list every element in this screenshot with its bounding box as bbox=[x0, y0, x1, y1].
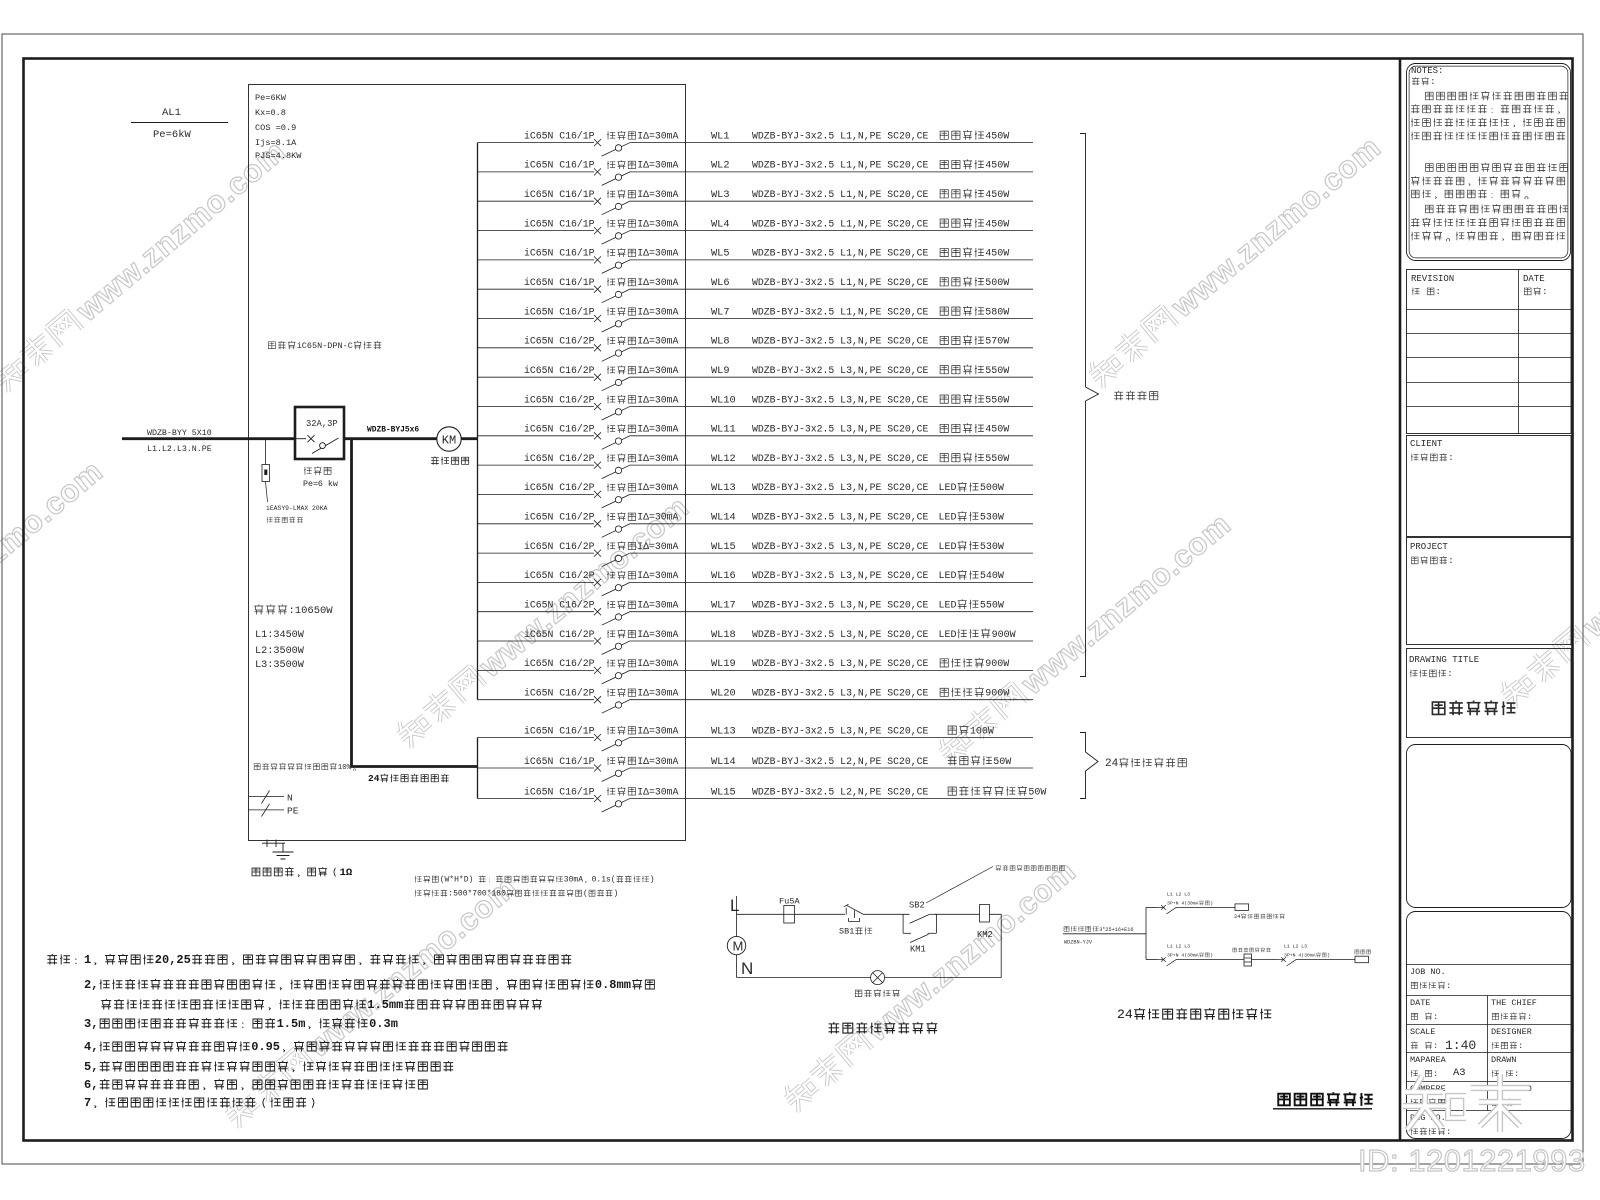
breaker row WL5 iC65N C16/1P bbox=[478, 247, 1034, 273]
svg-text:550W: 550W bbox=[980, 601, 1004, 612]
svg-text:50W: 50W bbox=[993, 757, 1011, 768]
cable label: mall cable 3*25+16+E16 bbox=[1064, 926, 1133, 945]
svg-text:WL15: WL15 bbox=[711, 786, 736, 798]
svg-text::: : bbox=[1430, 77, 1435, 87]
svg-text:iC65N C16/1P: iC65N C16/1P bbox=[524, 218, 595, 229]
svg-text:IΔ=30mA: IΔ=30mA bbox=[637, 130, 678, 141]
svg-text:450W: 450W bbox=[985, 249, 1009, 260]
breaker row WL17 iC65N C16/2P bbox=[478, 599, 1034, 625]
svg-text:iC65N C16/1P: iC65N C16/1P bbox=[524, 248, 595, 259]
svg-text:(W*H*D): (W*H*D) bbox=[440, 876, 474, 885]
svg-text:WDZB-BYJ-3x2.5 L3,N,PE SC20,CE: WDZB-BYJ-3x2.5 L3,N,PE SC20,CE bbox=[752, 688, 928, 699]
svg-text:WDZB-BYJ-3x2.5 L3,N,PE SC20,CE: WDZB-BYJ-3x2.5 L3,N,PE SC20,CE bbox=[752, 394, 928, 405]
svg-text:WDZB-BYJ-3x2.5 L3,N,PE SC20,CE: WDZB-BYJ-3x2.5 L3,N,PE SC20,CE bbox=[752, 725, 928, 736]
title block: PROJECT box bbox=[1407, 538, 1572, 645]
svg-text:IΔ=30mA: IΔ=30mA bbox=[637, 424, 678, 435]
svg-text:L: L bbox=[730, 896, 739, 915]
svg-text:Fu5A: Fu5A bbox=[779, 897, 800, 907]
svg-text:2,: 2, bbox=[84, 978, 98, 992]
distribution panel enclosure AL1 bbox=[249, 85, 686, 841]
svg-text:WL12: WL12 bbox=[711, 453, 736, 465]
title block: REVISION table bbox=[1407, 270, 1572, 434]
svg-text:SCALE: SCALE bbox=[1410, 1027, 1436, 1037]
svg-text:WDZB-BYJ-3x2.5 L3,N,PE SC20,CE: WDZB-BYJ-3x2.5 L3,N,PE SC20,CE bbox=[752, 336, 928, 347]
svg-text:WDZB-BYJ-3x2.5 L1,N,PE SC20,CE: WDZB-BYJ-3x2.5 L1,N,PE SC20,CE bbox=[752, 306, 928, 317]
svg-text:1:40: 1:40 bbox=[1445, 1038, 1476, 1053]
svg-text:COS =0.9: COS =0.9 bbox=[255, 123, 296, 133]
svg-text:450W: 450W bbox=[985, 131, 1009, 142]
breaker row WL8 iC65N C16/2P bbox=[478, 335, 1034, 361]
svg-text:IΔ=30mA: IΔ=30mA bbox=[637, 189, 678, 200]
breaker row WL12 iC65N C16/2P bbox=[478, 453, 1034, 479]
svg-text:WDZB-BYJ-3x2.5 L2,N,PE SC20,CE: WDZB-BYJ-3x2.5 L2,N,PE SC20,CE bbox=[752, 756, 928, 767]
svg-text:50W: 50W bbox=[1028, 787, 1046, 798]
svg-text:DATE: DATE bbox=[1410, 998, 1430, 1008]
svg-text:L1:3450W: L1:3450W bbox=[255, 630, 305, 641]
svg-text:IΔ=30mA: IΔ=30mA bbox=[637, 688, 678, 699]
breaker: 24h bottom branch second 3P+N bbox=[1252, 944, 1356, 967]
svg-text:10%: 10% bbox=[338, 764, 352, 772]
svg-text:ID: 1201221993: ID: 1201221993 bbox=[1358, 1143, 1586, 1178]
breaker row WL11 iC65N C16/2P bbox=[478, 423, 1034, 449]
svg-text:WDZB-BYJ-3x2.5 L1,N,PE SC20,CE: WDZB-BYJ-3x2.5 L1,N,PE SC20,CE bbox=[752, 160, 928, 171]
pushbutton SB2 start with KM1 parallel contact bbox=[903, 901, 936, 955]
svg-text:WDZBN-YJV: WDZBN-YJV bbox=[1064, 940, 1093, 946]
breaker row WL14 iC65N C16/1P bbox=[478, 755, 1034, 781]
svg-text:WL17: WL17 bbox=[711, 600, 736, 612]
svg-text:DRAWING TITLE: DRAWING TITLE bbox=[1409, 655, 1479, 665]
svg-text:WDZB-BYJ-3x2.5 L3,N,PE SC20,CE: WDZB-BYJ-3x2.5 L3,N,PE SC20,CE bbox=[752, 512, 928, 523]
svg-text:SB1: SB1 bbox=[839, 927, 854, 937]
svg-text:IΔ=30mA: IΔ=30mA bbox=[637, 600, 678, 611]
svg-text:N: N bbox=[287, 793, 293, 804]
svg-text:Pe=6 kw: Pe=6 kw bbox=[303, 479, 338, 489]
title block: CLIENT box bbox=[1407, 436, 1572, 537]
svg-text:WDZB-BYJ-3x2.5 L3,N,PE SC20,CE: WDZB-BYJ-3x2.5 L3,N,PE SC20,CE bbox=[752, 658, 928, 669]
wire: 24h uninterrupted bypass feed bbox=[352, 439, 479, 784]
svg-text:L3:3500W: L3:3500W bbox=[255, 660, 305, 671]
title block: NOTES box bbox=[1407, 64, 1571, 261]
svg-text:L2:3500W: L2:3500W bbox=[255, 646, 305, 657]
svg-text:550W: 550W bbox=[985, 454, 1009, 465]
svg-text:iC65N-DPN-C: iC65N-DPN-C bbox=[297, 341, 353, 351]
panel load parameters label bbox=[255, 93, 302, 161]
wire: one-key top conductor bbox=[736, 896, 738, 936]
svg-text:LED: LED bbox=[939, 630, 957, 641]
svg-text:LED: LED bbox=[939, 601, 957, 612]
svg-text:1Ω: 1Ω bbox=[340, 867, 353, 879]
svg-text:iC65N C16/1P: iC65N C16/1P bbox=[524, 756, 595, 767]
title block: lower info table bbox=[1407, 912, 1572, 1139]
svg-text:3,: 3, bbox=[84, 1017, 98, 1031]
svg-text:Kx=0.8: Kx=0.8 bbox=[255, 108, 286, 118]
svg-text:): ) bbox=[1210, 953, 1213, 959]
svg-text:WDZB-BYJ-3x2.5 L3,N,PE SC20,CE: WDZB-BYJ-3x2.5 L3,N,PE SC20,CE bbox=[752, 570, 928, 581]
svg-text::: : bbox=[1433, 1069, 1438, 1079]
contactor KM one-key power-off bbox=[431, 427, 469, 465]
cable label WDZB-BYJ5x6 bbox=[367, 426, 419, 435]
svg-text:WL15: WL15 bbox=[711, 541, 736, 553]
svg-text:540W: 540W bbox=[980, 571, 1004, 582]
svg-text:WDZB-BYJ-3x2.5 L1,N,PE SC20,CE: WDZB-BYJ-3x2.5 L1,N,PE SC20,CE bbox=[752, 248, 928, 259]
breaker row WL13 iC65N C16/2P bbox=[478, 482, 1034, 508]
svg-text:500W: 500W bbox=[985, 278, 1009, 289]
svg-text:KM1: KM1 bbox=[910, 945, 926, 955]
coil KM2 bbox=[977, 905, 993, 941]
breaker row WL16 iC65N C16/2P bbox=[478, 570, 1034, 596]
breaker row WL9 iC65N C16/2P bbox=[478, 365, 1034, 391]
svg-text:3P+N 4(30mA: 3P+N 4(30mA bbox=[1167, 953, 1199, 959]
leader: start signal to low-voltage box note bbox=[926, 865, 1064, 903]
svg-text:Pe=6kW: Pe=6kW bbox=[153, 129, 192, 141]
svg-text:20,25: 20,25 bbox=[155, 953, 191, 967]
svg-text:3P+N 4(30mA: 3P+N 4(30mA bbox=[1284, 953, 1316, 959]
svg-text:450W: 450W bbox=[985, 219, 1009, 230]
watermark row 3 mid bbox=[777, 853, 1082, 1117]
svg-text:550W: 550W bbox=[985, 366, 1009, 377]
svg-text:550W: 550W bbox=[985, 395, 1009, 406]
svg-text:WDZB-BYJ-3x2.5 L3,N,PE SC20,CE: WDZB-BYJ-3x2.5 L3,N,PE SC20,CE bbox=[752, 453, 928, 464]
svg-text:DRAWN: DRAWN bbox=[1491, 1055, 1517, 1065]
svg-text:WL6: WL6 bbox=[711, 277, 730, 289]
svg-text:IΔ=30mA: IΔ=30mA bbox=[637, 541, 678, 552]
svg-text:7: 7 bbox=[84, 1096, 91, 1110]
svg-text:LED: LED bbox=[939, 571, 957, 582]
svg-text:IΔ=30mA: IΔ=30mA bbox=[637, 277, 678, 288]
watermark row 2 right edge (partial) bbox=[1494, 449, 1600, 713]
bracket: normal power group bbox=[1080, 134, 1158, 677]
svg-text:900W: 900W bbox=[985, 689, 1009, 700]
svg-text:IΔ=30mA: IΔ=30mA bbox=[637, 453, 678, 464]
surge protector iEASY9-LMAX 20KA bbox=[262, 439, 328, 523]
load: 24h uninterrupted equipment bbox=[1234, 904, 1285, 920]
svg-text:500W: 500W bbox=[980, 483, 1004, 494]
svg-text:iC65N C16/2P: iC65N C16/2P bbox=[524, 336, 595, 347]
svg-text:iC65N C16/2P: iC65N C16/2P bbox=[524, 688, 595, 699]
title block: DRAWING TITLE box bbox=[1407, 649, 1572, 738]
svg-text::: : bbox=[1448, 453, 1453, 463]
svg-text:IΔ=30mA: IΔ=30mA bbox=[637, 756, 678, 767]
svg-text::: : bbox=[1446, 981, 1451, 991]
wire: main incoming feed WDZB-BYY 5X10 bbox=[122, 429, 295, 454]
svg-text::500*700*180: :500*700*180 bbox=[448, 890, 506, 899]
svg-text:0.1s(: 0.1s( bbox=[592, 876, 616, 885]
svg-text:WDZB-BYJ-3x2.5 L3,N,PE SC20,CE: WDZB-BYJ-3x2.5 L3,N,PE SC20,CE bbox=[752, 365, 928, 376]
breaker brand note label bbox=[268, 341, 381, 351]
busbar: normal power rows WL1-WL20 bbox=[477, 143, 479, 700]
svg-text:WL14: WL14 bbox=[711, 756, 736, 768]
svg-text:iC65N C16/2P: iC65N C16/2P bbox=[524, 541, 595, 552]
svg-text:WDZB-BYJ-3x2.5 L3,N,PE SC20,CE: WDZB-BYJ-3x2.5 L3,N,PE SC20,CE bbox=[752, 600, 928, 611]
svg-text::: : bbox=[1436, 287, 1441, 297]
svg-text:A3: A3 bbox=[1453, 1067, 1466, 1079]
svg-text:3P+N 4(30mA: 3P+N 4(30mA bbox=[1167, 901, 1199, 907]
svg-text:WL20: WL20 bbox=[711, 688, 736, 700]
svg-text:WL3: WL3 bbox=[711, 189, 730, 201]
svg-text:PJS=4.8KW: PJS=4.8KW bbox=[255, 151, 302, 161]
svg-text:24: 24 bbox=[1105, 758, 1119, 770]
svg-text:Pe=6KW: Pe=6KW bbox=[255, 93, 287, 103]
svg-text:WL19: WL19 bbox=[711, 658, 736, 670]
breaker row WL20 iC65N C16/2P bbox=[478, 687, 1034, 713]
breaker row WL2 iC65N C16/1P bbox=[478, 159, 1034, 185]
svg-text:5,: 5, bbox=[84, 1060, 98, 1074]
svg-text:IΔ=30mA: IΔ=30mA bbox=[637, 394, 678, 405]
svg-text::: : bbox=[1542, 287, 1547, 297]
svg-text:iC65N C16/1P: iC65N C16/1P bbox=[524, 130, 595, 141]
svg-text:KM2: KM2 bbox=[977, 930, 993, 940]
svg-text:450W: 450W bbox=[985, 190, 1009, 201]
svg-text:THE CHIEF: THE CHIEF bbox=[1491, 998, 1537, 1008]
svg-text:iC65N C16/2P: iC65N C16/2P bbox=[524, 482, 595, 493]
svg-text:L1.L2.L3.N.PE: L1.L2.L3.N.PE bbox=[147, 445, 212, 454]
enclosure size note bbox=[415, 875, 655, 898]
svg-text:): ) bbox=[650, 876, 655, 885]
breaker: 24h top branch 3P+N bbox=[1146, 892, 1235, 914]
svg-text:IΔ=30mA: IΔ=30mA bbox=[637, 658, 678, 669]
svg-text:6,: 6, bbox=[84, 1078, 98, 1092]
svg-text:SB2: SB2 bbox=[909, 901, 925, 911]
svg-text:WDZB-BYJ-3x2.5 L1,N,PE SC20,CE: WDZB-BYJ-3x2.5 L1,N,PE SC20,CE bbox=[752, 218, 928, 229]
svg-text:DATE: DATE bbox=[1523, 274, 1545, 284]
svg-text:iC65N C16/1P: iC65N C16/1P bbox=[524, 189, 595, 200]
svg-text:iC65N C16/1P: iC65N C16/1P bbox=[524, 306, 595, 317]
svg-text:0.95: 0.95 bbox=[251, 1040, 280, 1054]
svg-text:WL14: WL14 bbox=[711, 512, 736, 524]
svg-text:WL4: WL4 bbox=[711, 218, 730, 230]
svg-text:WL1: WL1 bbox=[711, 130, 730, 142]
svg-text:IΔ=30mA: IΔ=30mA bbox=[637, 570, 678, 581]
svg-text:PROJECT: PROJECT bbox=[1410, 542, 1448, 552]
svg-text:REVISION: REVISION bbox=[1411, 274, 1454, 284]
svg-text:WDZB-BYJ-3x2.5 L3,N,PE SC20,CE: WDZB-BYJ-3x2.5 L3,N,PE SC20,CE bbox=[752, 541, 928, 552]
svg-text:WL13: WL13 bbox=[711, 482, 736, 494]
wire: KM to busbar bbox=[461, 437, 478, 440]
svg-text::: : bbox=[1527, 1012, 1532, 1022]
svg-text:Ijs=8.1A: Ijs=8.1A bbox=[255, 138, 297, 148]
breaker row WL14 iC65N C16/2P bbox=[478, 511, 1034, 537]
busbar: 24h power rows bbox=[477, 738, 479, 799]
svg-text:32A,3P: 32A,3P bbox=[306, 419, 338, 429]
svg-text::: : bbox=[1447, 669, 1452, 679]
svg-text:IΔ=30mA: IΔ=30mA bbox=[637, 482, 678, 493]
breaker row WL15 iC65N C16/2P bbox=[478, 541, 1034, 567]
breaker row WL13 iC65N C16/1P bbox=[478, 725, 1034, 751]
svg-text:L1 L2 L3: L1 L2 L3 bbox=[1167, 892, 1190, 898]
phase imbalance note bbox=[254, 763, 356, 772]
watermark row 2 far-left (partial) bbox=[0, 453, 110, 717]
svg-text::: : bbox=[1514, 1069, 1519, 1079]
svg-text:IΔ=30mA: IΔ=30mA bbox=[637, 725, 678, 736]
svg-text:iC65N C16/2P: iC65N C16/2P bbox=[524, 512, 595, 523]
node N neutral label bbox=[741, 959, 753, 978]
svg-text:JOB NO.: JOB NO. bbox=[1410, 967, 1446, 977]
svg-text:(: ( bbox=[583, 890, 588, 899]
node PE earth bar bbox=[248, 804, 298, 817]
svg-text:PE: PE bbox=[287, 806, 299, 817]
svg-text:1.5mm: 1.5mm bbox=[367, 998, 403, 1012]
watermark row 2 mid-left bbox=[390, 489, 695, 753]
svg-text:24: 24 bbox=[1234, 914, 1240, 920]
svg-text:iEASY9-LMAX 20KA: iEASY9-LMAX 20KA bbox=[266, 505, 328, 512]
svg-text:24: 24 bbox=[368, 773, 380, 784]
breaker row WL3 iC65N C16/1P bbox=[478, 189, 1034, 215]
wire: 32A breaker to KM contactor bbox=[344, 437, 437, 440]
svg-text:WL2: WL2 bbox=[711, 160, 730, 172]
svg-text:450W: 450W bbox=[985, 425, 1009, 436]
svg-text:WL18: WL18 bbox=[711, 629, 736, 641]
watermark logo (large) bottom right bbox=[1403, 1074, 1529, 1132]
svg-text:IΔ=30mA: IΔ=30mA bbox=[637, 336, 678, 347]
svg-text:450W: 450W bbox=[985, 161, 1009, 172]
breaker row WL19 iC65N C16/2P bbox=[478, 658, 1034, 684]
fuse Fu5A bbox=[779, 897, 800, 924]
wire: one-key bottom conductor bbox=[736, 955, 738, 978]
svg-text:WDZB-BYJ-3x2.5 L1,N,PE SC20,CE: WDZB-BYJ-3x2.5 L1,N,PE SC20,CE bbox=[752, 277, 928, 288]
svg-text:WDZB-BYJ-3x2.5 L2,N,PE SC20,CE: WDZB-BYJ-3x2.5 L2,N,PE SC20,CE bbox=[752, 786, 928, 797]
svg-text:WL8: WL8 bbox=[711, 336, 730, 348]
svg-text::: : bbox=[1433, 1012, 1438, 1022]
svg-text::: : bbox=[1448, 556, 1453, 566]
wire: KM2 to right drop bbox=[990, 914, 1002, 977]
svg-text:L1 L2 L3: L1 L2 L3 bbox=[1284, 944, 1307, 950]
svg-text:iC65N C16/2P: iC65N C16/2P bbox=[524, 658, 595, 669]
svg-text::: : bbox=[1518, 1041, 1523, 1051]
watermark row 2 mid-right bbox=[932, 506, 1237, 770]
breaker row WL10 iC65N C16/2P bbox=[478, 394, 1034, 420]
breaker row WL15 iC65N C16/1P bbox=[478, 786, 1047, 812]
breaker QF main 32A,3P with leakage protection bbox=[295, 407, 344, 489]
breaker row WL6 iC65N C16/1P bbox=[478, 277, 1034, 303]
watermark row 3 left bbox=[218, 869, 523, 1133]
svg-text:WL16: WL16 bbox=[711, 570, 736, 582]
svg-text:DESIGNER: DESIGNER bbox=[1491, 1027, 1532, 1037]
wire: 24h feed to branch point bbox=[1063, 933, 1146, 935]
svg-text:WDZB-BYJ5x6: WDZB-BYJ5x6 bbox=[367, 426, 419, 435]
svg-text:IΔ=30mA: IΔ=30mA bbox=[637, 160, 678, 171]
svg-text:iC65N C16/2P: iC65N C16/2P bbox=[524, 629, 595, 640]
watermark row 1 left bbox=[0, 133, 293, 397]
svg-text:1: 1 bbox=[84, 953, 91, 967]
svg-text:): ) bbox=[614, 890, 619, 899]
svg-text:iC65N C16/1P: iC65N C16/1P bbox=[524, 786, 595, 797]
svg-text:IΔ=30mA: IΔ=30mA bbox=[637, 629, 678, 640]
svg-text:WDZB-BYJ-3x2.5 L3,N,PE SC20,CE: WDZB-BYJ-3x2.5 L3,N,PE SC20,CE bbox=[752, 482, 928, 493]
breaker row WL1 iC65N C16/1P bbox=[478, 130, 1034, 156]
stabilizer: three-phase voltage regulator bbox=[1233, 947, 1271, 966]
svg-text:CLIENT: CLIENT bbox=[1410, 439, 1443, 449]
svg-text:iC65N C16/1P: iC65N C16/1P bbox=[524, 725, 595, 736]
svg-text:900W: 900W bbox=[992, 630, 1016, 641]
svg-text:iC65N C16/2P: iC65N C16/2P bbox=[524, 365, 595, 376]
svg-text:IΔ=30mA: IΔ=30mA bbox=[637, 512, 678, 523]
pushbutton SB1 stop (NC) bbox=[839, 904, 872, 936]
svg-text:0.8mm: 0.8mm bbox=[595, 978, 631, 992]
svg-text:900W: 900W bbox=[985, 659, 1009, 670]
svg-text:WL13: WL13 bbox=[711, 725, 736, 737]
svg-text:WDZB-BYJ-3x2.5 L3,N,PE SC20,CE: WDZB-BYJ-3x2.5 L3,N,PE SC20,CE bbox=[752, 424, 928, 435]
svg-text:4,: 4, bbox=[84, 1040, 98, 1054]
svg-text:WL5: WL5 bbox=[711, 248, 730, 260]
wire: contacts to KM2 coil bbox=[935, 913, 980, 915]
lamp: power indicator bbox=[855, 971, 899, 998]
svg-text:NOTES:: NOTES: bbox=[1411, 66, 1443, 76]
svg-text:WL10: WL10 bbox=[711, 394, 736, 406]
svg-text:1.5m: 1.5m bbox=[277, 1017, 306, 1031]
node N neutral bar bbox=[248, 791, 292, 804]
svg-text:): ) bbox=[1210, 901, 1213, 907]
svg-text:WDZB-BYJ-3x2.5 L1,N,PE SC20,CE: WDZB-BYJ-3x2.5 L1,N,PE SC20,CE bbox=[752, 189, 928, 200]
title: one-key start system bbox=[829, 1022, 938, 1034]
breaker: 24h bottom branch first 3P+N bbox=[1146, 944, 1244, 967]
svg-text:LED: LED bbox=[939, 483, 957, 494]
svg-text:iC65N C16/2P: iC65N C16/2P bbox=[524, 600, 595, 611]
svg-text:iC65N C16/1P: iC65N C16/1P bbox=[524, 277, 595, 288]
svg-text::: : bbox=[1446, 1127, 1451, 1137]
svg-text:KM: KM bbox=[442, 434, 456, 448]
load: distribution box bbox=[1355, 950, 1371, 963]
svg-text:IΔ=30mA: IΔ=30mA bbox=[637, 365, 678, 376]
svg-text:580W: 580W bbox=[985, 307, 1009, 318]
svg-text:24: 24 bbox=[1117, 1007, 1133, 1022]
svg-text:IΔ=30mA: IΔ=30mA bbox=[637, 306, 678, 317]
breaker row WL7 iC65N C16/1P bbox=[478, 306, 1034, 332]
node AL1 panel designation bbox=[131, 107, 228, 141]
svg-text:570W: 570W bbox=[985, 337, 1009, 348]
svg-text:): ) bbox=[1327, 953, 1330, 959]
svg-text:WDZB-BYY 5X10: WDZB-BYY 5X10 bbox=[147, 429, 212, 438]
svg-text:530W: 530W bbox=[980, 542, 1004, 553]
total power labels bbox=[254, 605, 333, 671]
svg-text:iC65N C16/2P: iC65N C16/2P bbox=[524, 570, 595, 581]
svg-text:iC65N C16/2P: iC65N C16/2P bbox=[524, 424, 595, 435]
breaker row WL4 iC65N C16/1P bbox=[478, 218, 1034, 244]
svg-text:LED: LED bbox=[939, 513, 957, 524]
title: 24h uninterrupted supply diagram bbox=[1117, 1007, 1271, 1022]
title block divider line bbox=[1399, 59, 1402, 1141]
svg-text:WL9: WL9 bbox=[711, 365, 730, 377]
sheet title: distribution box system diagram bbox=[1273, 1092, 1373, 1109]
node L phase label bbox=[730, 896, 739, 915]
title block: empty frame box bbox=[1407, 745, 1572, 908]
ground: repeat earthing electrode bbox=[252, 840, 353, 880]
svg-text::10650W: :10650W bbox=[289, 605, 334, 617]
svg-text:0.3m: 0.3m bbox=[369, 1017, 398, 1031]
svg-text:LED: LED bbox=[939, 542, 957, 553]
svg-text:MAPAREA: MAPAREA bbox=[1410, 1055, 1447, 1065]
svg-text::: : bbox=[1433, 1041, 1438, 1051]
meter M circle bbox=[727, 936, 745, 954]
svg-text:530W: 530W bbox=[980, 513, 1004, 524]
svg-text:IΔ=30mA: IΔ=30mA bbox=[637, 786, 678, 797]
breaker row WL18 iC65N C16/2P bbox=[478, 628, 1034, 654]
svg-text:100W: 100W bbox=[970, 726, 994, 737]
svg-text:iC65N C16/2P: iC65N C16/2P bbox=[524, 394, 595, 405]
svg-text:3*25+16+E16: 3*25+16+E16 bbox=[1099, 927, 1133, 933]
svg-text:WDZB-BYJ-3x2.5 L1,N,PE SC20,CE: WDZB-BYJ-3x2.5 L1,N,PE SC20,CE bbox=[752, 130, 928, 141]
svg-text:WL7: WL7 bbox=[711, 306, 730, 318]
svg-text:30mA: 30mA bbox=[564, 876, 583, 885]
svg-text:IΔ=30mA: IΔ=30mA bbox=[637, 248, 678, 259]
svg-text:iC65N C16/1P: iC65N C16/1P bbox=[524, 160, 595, 171]
wire: fuse to stop button bbox=[795, 913, 846, 915]
watermark row 1 right bbox=[1082, 129, 1387, 393]
svg-text:M: M bbox=[733, 939, 744, 954]
svg-text:L1 L2 L3: L1 L2 L3 bbox=[1167, 944, 1190, 950]
svg-text:iC65N C16/2P: iC65N C16/2P bbox=[524, 453, 595, 464]
wire: SB1 to SB2 contact group bbox=[863, 913, 910, 915]
bracket: 24h equipment power group bbox=[1080, 733, 1186, 799]
